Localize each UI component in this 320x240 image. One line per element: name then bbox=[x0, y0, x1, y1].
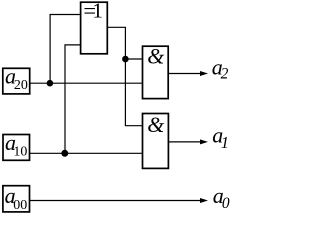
svg-text:20: 20 bbox=[14, 78, 28, 93]
op-amp: XOR gate box =1 bbox=[81, 2, 108, 54]
wire: branch from node to AND1 input bbox=[125, 58, 142, 60]
label: a00 bbox=[5, 183, 28, 213]
wire: XOR input 1 from a20 junction up to =1 pin bbox=[50, 15, 81, 84]
svg-text:0: 0 bbox=[222, 195, 230, 212]
label: output a1 bbox=[212, 123, 229, 152]
label: output a2 bbox=[212, 54, 229, 82]
node: junction dot XOR output branch bbox=[122, 56, 129, 63]
input box a20 bbox=[3, 68, 30, 94]
wire: XOR input 2 from a10 junction up to =1 pin bbox=[65, 45, 81, 153]
svg-text:1: 1 bbox=[92, 0, 103, 23]
arrowhead a1 bbox=[200, 139, 208, 144]
label: output a0 bbox=[213, 183, 230, 212]
op-amp: AND gate box U1 bbox=[143, 46, 169, 98]
arrowhead a0 bbox=[200, 198, 208, 203]
wire: a00 output to arrow a0 bbox=[30, 200, 205, 202]
wire: a10 output to AND2 input bbox=[30, 152, 143, 154]
input box a00 bbox=[3, 186, 30, 212]
svg-text:1: 1 bbox=[221, 133, 229, 152]
wire: a20 output to AND1 input bbox=[30, 82, 143, 84]
label: =1 gate symbol bbox=[83, 0, 103, 23]
wire: AND1 output to arrow a2 bbox=[168, 73, 204, 75]
op-amp: AND gate box U2 bbox=[143, 114, 169, 169]
svg-text:10: 10 bbox=[13, 145, 27, 160]
svg-text:&: & bbox=[147, 43, 165, 68]
input box a10 bbox=[3, 135, 30, 161]
wire: AND2 output to arrow a1 bbox=[168, 141, 204, 143]
svg-text:&: & bbox=[147, 112, 165, 137]
svg-text:2: 2 bbox=[221, 65, 229, 82]
label: a10 bbox=[5, 130, 27, 160]
wire: XOR output down to AND2 input bbox=[107, 27, 142, 125]
node: junction dot on a20 line bbox=[47, 80, 54, 87]
label: a20 bbox=[5, 63, 28, 93]
arrowhead a2 bbox=[200, 71, 208, 76]
svg-text:00: 00 bbox=[13, 198, 27, 213]
node: junction dot on a10 line bbox=[61, 150, 68, 157]
